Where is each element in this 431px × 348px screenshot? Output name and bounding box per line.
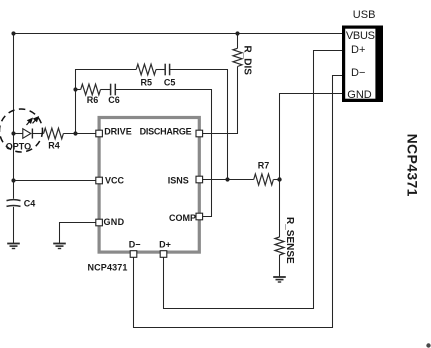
svg-text:D−: D−: [351, 67, 365, 79]
svg-text:DISCHARGE: DISCHARGE: [140, 127, 192, 137]
svg-text:C6: C6: [108, 95, 120, 105]
svg-text:C5: C5: [164, 77, 176, 87]
svg-text:GND: GND: [347, 89, 372, 101]
svg-text:R4: R4: [48, 140, 60, 150]
svg-text:NCP4371: NCP4371: [404, 134, 420, 197]
svg-text:R7: R7: [258, 160, 270, 170]
svg-text:R_DIS: R_DIS: [242, 46, 253, 76]
svg-text:R_SENSE: R_SENSE: [284, 217, 295, 264]
svg-text:USB: USB: [353, 9, 376, 21]
svg-text:D+: D+: [159, 240, 171, 250]
svg-text:D−: D−: [129, 240, 141, 250]
svg-text:DRIVE: DRIVE: [104, 127, 132, 137]
svg-text:ISNS: ISNS: [168, 175, 189, 185]
svg-text:OPTO: OPTO: [6, 141, 31, 151]
svg-text:D+: D+: [351, 44, 365, 56]
svg-text:GND: GND: [104, 217, 125, 227]
svg-text:VCC: VCC: [105, 176, 125, 186]
svg-text:VBUS: VBUS: [346, 30, 375, 42]
svg-text:COMP: COMP: [169, 213, 196, 223]
svg-text:R5: R5: [141, 77, 153, 87]
svg-text:NCP4371: NCP4371: [88, 263, 128, 273]
svg-text:C4: C4: [24, 199, 36, 209]
svg-text:R6: R6: [87, 95, 99, 105]
